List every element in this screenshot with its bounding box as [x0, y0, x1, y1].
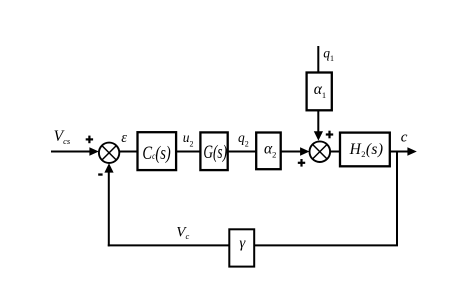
arrowhead into summing junction S1 [89, 147, 98, 156]
svg-text:G(s): G(s) [203, 143, 227, 163]
summing junction S2 [310, 141, 331, 162]
wire: H2(s) output [390, 151, 408, 153]
wire: S2 to H2(s) [330, 151, 340, 153]
wire: S1 to Cc(s) [119, 151, 137, 153]
wire: G(s) to alpha2, node q2 [228, 151, 257, 153]
summing junction S1 [99, 143, 119, 163]
wire: alpha1 down to S2 [317, 110, 319, 132]
wire: Cc(s) to G(s), node u2 [176, 151, 200, 153]
svg-text:H2(s): H2(s) [349, 141, 384, 159]
block alpha2 [256, 133, 281, 170]
plus sign at S2 left input [298, 159, 305, 167]
arrowhead into S2 from top [314, 131, 323, 140]
plus sign at S1 input [86, 136, 93, 144]
svg-text:Cc(s): Cc(s) [142, 144, 170, 164]
wire: q1 input down to alpha1 [317, 46, 319, 73]
block gamma [229, 229, 254, 266]
svg-text:ε: ε [121, 130, 127, 146]
block G(s) [200, 132, 227, 170]
wire: alpha2 to summing junction S2 [281, 151, 301, 153]
block H2(s) [340, 133, 390, 167]
minus sign at S1 feedback input [98, 173, 102, 175]
wire: feedback bottom horizontal [108, 244, 398, 246]
wire: input Vcs line [51, 151, 91, 153]
block Cc(s) [138, 132, 177, 170]
arrowhead into S1 from below [104, 163, 113, 172]
wire: feedback up to S1 [108, 171, 110, 247]
arrowhead into S2 [300, 147, 309, 156]
svg-text:c: c [401, 129, 408, 145]
plus sign at S2 top input [326, 131, 333, 139]
arrowhead output c [407, 147, 416, 156]
wire: feedback from output node down [396, 151, 398, 246]
block alpha1 [307, 73, 332, 111]
